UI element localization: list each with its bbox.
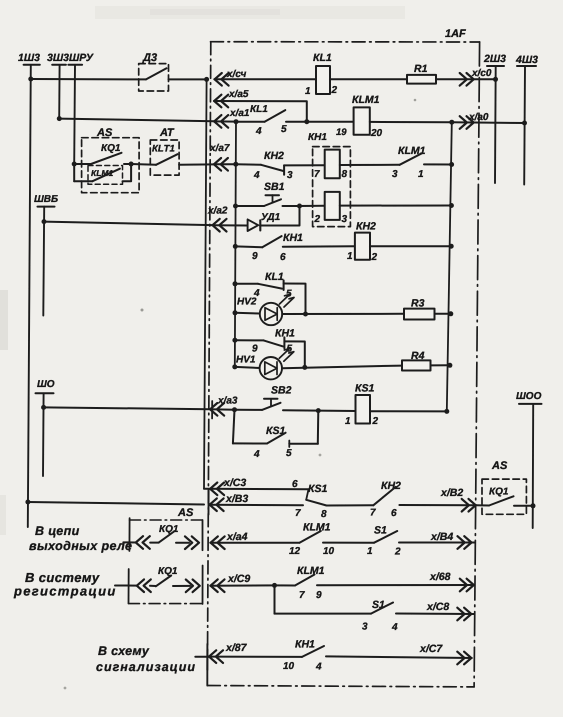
- wire inner supply rail: [235, 122, 236, 367]
- relay coil КН1 (upper): [325, 150, 340, 179]
- contact КLМ1 blade (7-9): [295, 575, 315, 586]
- svg-text:4: 4: [255, 126, 262, 137]
- svg-text:3: 3: [287, 170, 293, 181]
- wire right collector rail: [447, 122, 452, 411]
- svg-text:7: 7: [295, 508, 301, 519]
- wire rail to KL1 contact: [236, 121, 265, 123]
- svg-text:x/В3: x/В3: [225, 493, 248, 505]
- node junction row1 / 2Ш3: [493, 77, 498, 82]
- svg-text:КLМ1: КLМ1: [352, 94, 380, 106]
- wire row1 to KL1 coil: [214, 78, 316, 80]
- wire KQ1 to ШОО: [514, 505, 533, 507]
- wire x/а1 to rail: [214, 120, 236, 122]
- wire КН2 to x/В2: [399, 504, 476, 506]
- svg-text:7: 7: [370, 508, 376, 519]
- wire КLМ1 to right rail: [424, 163, 452, 165]
- wire KL1 to R1: [330, 78, 407, 80]
- svg-text:НV1: НV1: [236, 355, 256, 366]
- connector x/а3 arrow: [210, 403, 224, 416]
- wire branch drop: [274, 585, 276, 613]
- svg-text:2: 2: [314, 214, 321, 225]
- svg-text:1: 1: [367, 546, 373, 557]
- boundary 1AF bottom edge: [207, 686, 474, 687]
- contact KL1 blade: [265, 110, 286, 122]
- boundary 1AF right edge: [474, 42, 480, 687]
- bus ШРУ top tick: [68, 64, 82, 66]
- wire KQ1 to node: [124, 163, 131, 165]
- svg-text:4: 4: [253, 449, 260, 460]
- wire to x/а0 connector: [452, 121, 525, 124]
- wire ШВБ to boundary: [44, 222, 212, 226]
- wire x/87 left stub: [195, 656, 210, 658]
- svg-text:ШРУ: ШРУ: [69, 52, 94, 64]
- pushbutton SB2 actuator bar: [264, 398, 278, 400]
- wire node to КLМ1 contact: [275, 584, 296, 586]
- svg-text:АТ: АТ: [159, 127, 175, 139]
- pushbutton SB2 actuator stem: [270, 399, 272, 406]
- contact KLM1 (parallel) blade: [93, 169, 120, 182]
- svg-text:КQ1: КQ1: [158, 566, 178, 577]
- wire boundary to KQ1: [476, 504, 489, 506]
- wire КН1 coil to КLМ1 contact: [340, 164, 400, 166]
- wire SB1 to node: [283, 205, 300, 207]
- wire bypass drop (left): [233, 410, 235, 444]
- node junction SB1 / diode branch: [297, 204, 302, 209]
- wire rail to SB1: [236, 205, 265, 207]
- svg-text:6: 6: [292, 479, 298, 490]
- svg-text:7: 7: [299, 590, 305, 601]
- connector arrow (out of реле): [185, 536, 199, 549]
- node junction HV1 row / inner rail end: [232, 364, 237, 369]
- svg-text:1: 1: [305, 86, 311, 97]
- svg-text:x/С3: x/С3: [223, 477, 246, 489]
- svg-text:2: 2: [371, 252, 378, 263]
- svg-text:x/а3: x/а3: [217, 396, 238, 407]
- svg-text:x/С9: x/С9: [227, 573, 250, 585]
- wire x/а4 left stub: [123, 541, 136, 543]
- КН1 pin 5 tick: [283, 337, 285, 348]
- node junction pin5 / x/а5: [304, 119, 309, 124]
- svg-text:КLТ1: КLТ1: [152, 144, 175, 155]
- pushbutton SB1 blade: [264, 199, 281, 206]
- svg-text:КLМ1: КLМ1: [303, 522, 331, 534]
- node junction ШО / x/а3 row: [41, 405, 46, 410]
- node junction ШРУ / x/а7 row: [72, 162, 77, 167]
- contact S1 blade (3-4): [371, 603, 393, 614]
- wire x/В3 to KS1: [209, 504, 303, 507]
- wire node to KLT1: [131, 163, 156, 166]
- bus ШВБ (vertical wire): [42, 207, 45, 316]
- svg-text:3: 3: [392, 169, 398, 180]
- left terminal tick: [128, 518, 130, 551]
- КL1 pin 5 tick: [283, 280, 285, 290]
- bus 2Ш3 top tick: [487, 65, 504, 67]
- wire КLМ1 to S1: [323, 542, 374, 544]
- right terminal tick (регистрации): [202, 566, 204, 605]
- LED HV1 triangle: [265, 362, 277, 375]
- node junction KLM1 / right rail: [449, 120, 454, 125]
- svg-text:Д3: Д3: [142, 52, 157, 64]
- wire KLM1 parallel branch down: [73, 164, 75, 181]
- svg-text:6: 6: [280, 252, 286, 263]
- wire KS1 coil to right rail: [370, 410, 447, 412]
- connector x/В3 arrow: [210, 498, 224, 511]
- connector x/а0 arrow: [460, 116, 474, 129]
- wire bypass bottom right: [289, 443, 318, 445]
- contact КН1 blade (10-4): [302, 646, 324, 657]
- connector x/С9 arrow: [211, 579, 225, 592]
- svg-text:x/а7: x/а7: [209, 143, 230, 154]
- connector x/а7 arrow: [214, 158, 228, 171]
- bus 1Ш3 (vertical wire): [28, 65, 31, 527]
- node junction x/В2 / ШОО: [531, 503, 536, 508]
- LED HV1 circle: [260, 357, 282, 379]
- svg-text:SВ2: SВ2: [271, 385, 292, 397]
- accessory bracket (dash-dot, bottom): [129, 603, 203, 605]
- svg-text:9: 9: [252, 344, 258, 355]
- wire rail to КН1 contact: [235, 245, 262, 248]
- bus 4Ш3 (vertical wire): [523, 66, 526, 185]
- boundary 1AF top edge: [211, 41, 480, 43]
- wire branch to S1: [275, 613, 372, 615]
- node junction SB1 row / right rail: [449, 203, 454, 208]
- bus ШОО top tick: [519, 403, 542, 405]
- boundary tick at x/87: [206, 644, 208, 670]
- svg-text:x/87: x/87: [225, 642, 248, 654]
- svg-text:4: 4: [253, 170, 260, 181]
- wire row1 left segment: [31, 78, 146, 80]
- wire KLM1 branch to node: [123, 164, 132, 181]
- svg-text:АS: АS: [177, 507, 194, 519]
- accessory box AS (dashed): [82, 138, 140, 193]
- contact KLM1 (parallel) box: [88, 166, 123, 185]
- svg-text:регистрации: регистрации: [13, 584, 117, 599]
- svg-text:x/а4: x/а4: [226, 531, 248, 543]
- svg-text:20: 20: [370, 128, 383, 139]
- connector arrow (out of регистрации): [186, 580, 200, 593]
- svg-text:ШО: ШО: [37, 379, 55, 390]
- svg-text:8: 8: [342, 169, 348, 180]
- svg-text:АS: АS: [491, 460, 508, 472]
- relay coil KS1: [356, 395, 371, 424]
- wire x/а7 to rail: [214, 163, 236, 165]
- connector x/а5 arrow: [214, 95, 228, 108]
- wire x/С3 row: [204, 488, 309, 491]
- wire rail to КL1 contact: [235, 283, 258, 285]
- bus 1Ш3 top tick: [24, 64, 40, 66]
- connector x/с0 arrow: [460, 73, 474, 86]
- wire x/С9 to node: [210, 584, 274, 586]
- KS1 pin 5 tick: [288, 441, 290, 448]
- LED HV2 cathode bar: [276, 308, 278, 321]
- svg-text:УД1: УД1: [261, 212, 281, 223]
- node junction x/а3 / bypass branch: [232, 407, 237, 412]
- accessory box AS bracket (dash-dot): [130, 519, 203, 521]
- wire x/С9 left stub: [115, 585, 137, 587]
- contact KLT1 blade: [156, 154, 178, 165]
- wire KLT1 to boundary: [179, 163, 214, 165]
- bus 4Ш3 top tick: [517, 65, 536, 67]
- wire КLМ1 to x/68: [317, 584, 474, 586]
- svg-text:1: 1: [347, 251, 353, 262]
- svg-text:1: 1: [418, 169, 424, 180]
- wire node to КН1 lower coil: [300, 205, 325, 207]
- svg-text:ШВБ: ШВБ: [34, 194, 58, 205]
- svg-text:4: 4: [315, 662, 322, 673]
- contact KS1 blade to pin 8: [306, 500, 326, 506]
- svg-text:КQ1: КQ1: [489, 487, 509, 498]
- svg-text:3: 3: [362, 622, 368, 633]
- wire KS1 to КН2: [327, 504, 374, 506]
- svg-text:КS1: КS1: [355, 383, 374, 395]
- node junction row x/а7 / right rail: [449, 162, 454, 167]
- svg-text:x/В2: x/В2: [440, 487, 463, 499]
- node junction 1Ш3 / row1: [28, 77, 33, 82]
- node junction row1 / outer rail: [204, 77, 209, 82]
- left terminal tick (регистрации): [128, 569, 130, 603]
- boundary tick at x/В3: [208, 490, 210, 515]
- node junction КL1 bypass / HV2 row: [303, 312, 308, 317]
- contact Д3 box: [139, 64, 169, 91]
- node junction KS1 coil / right rail: [444, 409, 449, 414]
- wire ШРУ to KQ1: [74, 163, 91, 165]
- wire R4 to right rail: [431, 364, 450, 366]
- resistor R4: [402, 360, 431, 370]
- wire to KQ1 blade: [150, 542, 159, 544]
- svg-text:КL1: КL1: [250, 104, 268, 115]
- svg-text:7: 7: [314, 169, 320, 180]
- svg-text:КL1: КL1: [265, 271, 284, 283]
- wire rail to КН2 contact: [236, 163, 261, 166]
- svg-text:1Ш3: 1Ш3: [18, 52, 40, 64]
- wire KQ1 to arrow: [176, 542, 189, 544]
- svg-text:x/с0: x/с0: [471, 68, 492, 79]
- pushbutton SB1 actuator bar: [266, 194, 280, 196]
- svg-text:В схему: В схему: [98, 644, 150, 658]
- node junction x/а0 / 4Ш3: [522, 121, 527, 126]
- wire node to KLM1 coil: [307, 121, 354, 123]
- svg-text:x/С8: x/С8: [426, 601, 449, 613]
- node junction КН1 row / inner rail: [233, 244, 238, 249]
- connector x/В4 arrow: [458, 536, 472, 549]
- bus ШО (vertical wire): [42, 393, 45, 476]
- wire rail to КН1 contact: [235, 339, 264, 341]
- bus ШО top tick: [36, 392, 54, 394]
- svg-text:x/а1: x/а1: [229, 108, 250, 119]
- wire rail to HV2: [235, 312, 260, 315]
- contact KQ1 blade (регистрации): [156, 576, 171, 587]
- contact KQ1 blade: [489, 496, 514, 505]
- relay coil KL1: [316, 66, 330, 94]
- connector x/сч arrow: [215, 73, 229, 86]
- svg-text:1: 1: [345, 416, 351, 427]
- pushbutton SB1 actuator stem: [272, 195, 274, 202]
- wire КL1 to corner: [284, 284, 306, 315]
- wire HV1 to R4: [282, 366, 402, 369]
- connector x/68 arrow: [460, 579, 474, 592]
- svg-text:9: 9: [316, 590, 322, 601]
- wire КН2 to КН1 box: [284, 164, 325, 166]
- node junction SB2 / bypass return: [316, 408, 321, 413]
- accessory box AT (dashed): [150, 140, 179, 175]
- node junction R4 / right rail: [447, 363, 452, 368]
- connector x/В2 arrow: [462, 499, 476, 512]
- svg-text:КН1: КН1: [308, 132, 327, 143]
- pushbutton SB2 blade: [262, 403, 281, 410]
- wire КН1 lower coil to right rail: [340, 205, 452, 207]
- wire outer rail (1Ш3 row down to x/C3 row): [204, 79, 207, 488]
- svg-text:НV2: НV2: [237, 297, 257, 308]
- contact КН1 blade (to pin 5): [264, 340, 283, 346]
- wire x/а2 to diode: [212, 224, 247, 226]
- wire КН1 to corner: [284, 341, 304, 367]
- wire x/а4 to КLМ1: [210, 542, 299, 544]
- svg-text:x/В4: x/В4: [430, 531, 453, 543]
- relay coil KLM1: [354, 107, 370, 134]
- wire KLM1 branch lower: [74, 180, 92, 182]
- wire x/а3 to node: [210, 408, 235, 410]
- svg-text:3: 3: [342, 214, 348, 225]
- bus ШОО (vertical wire): [532, 404, 535, 528]
- contact КL1 blade (to pin 5): [258, 284, 282, 289]
- svg-text:9: 9: [252, 251, 258, 262]
- svg-text:КLМ1: КLМ1: [297, 565, 325, 577]
- LED HV2 circle: [260, 303, 282, 325]
- svg-text:сигнализации: сигнализации: [96, 660, 196, 674]
- svg-text:19: 19: [336, 127, 347, 138]
- svg-text:2Ш3: 2Ш3: [483, 53, 506, 65]
- svg-text:3Ш3: 3Ш3: [47, 52, 69, 64]
- wire rail to HV1: [235, 367, 260, 368]
- resistor R3: [404, 309, 435, 320]
- node junction HV2 row / inner rail: [233, 310, 238, 315]
- connector x/а2 arrow: [213, 219, 227, 232]
- bus 3Ш3 (vertical wire): [58, 65, 60, 119]
- svg-text:6: 6: [391, 508, 397, 519]
- node junction КН1 bypass / inner rail: [232, 338, 237, 343]
- node junction КL1 bypass / inner rail: [233, 281, 238, 286]
- boundary 1AF left-bottom corner: [206, 650, 208, 686]
- svg-text:ШОО: ШОО: [516, 391, 542, 402]
- boundary tick at x/а3: [211, 401, 213, 419]
- bus 3Ш3 top tick: [52, 64, 66, 66]
- wire to KQ1 blade: [150, 585, 156, 587]
- contact КН2 blade: [373, 487, 395, 505]
- node junction КН2 coil / right rail: [449, 244, 454, 249]
- contact S1 blade: [374, 531, 397, 543]
- wire bypass bottom left: [233, 442, 267, 444]
- node junction 3Ш3 / x/а1 row: [57, 116, 62, 121]
- wire node to SB2: [235, 409, 263, 411]
- wire R3 to right rail: [435, 313, 451, 315]
- svg-text:R1: R1: [414, 63, 428, 75]
- wire x/С3 drop to pivot: [306, 489, 308, 500]
- wire diode to SB1 node: [260, 206, 300, 226]
- wire HV2 to R3: [282, 313, 404, 315]
- svg-text:2: 2: [372, 416, 379, 427]
- svg-text:x/С7: x/С7: [419, 643, 443, 655]
- svg-text:x/а2: x/а2: [207, 206, 228, 217]
- svg-text:КLМ1: КLМ1: [398, 145, 426, 157]
- wire x/В3 from 1Ш3: [28, 502, 204, 505]
- LED HV2 emission arrows: [280, 295, 295, 308]
- wire КН2 coil to right rail: [370, 245, 451, 247]
- wire bypass rise (right): [317, 411, 320, 444]
- contact Д3 blade: [146, 68, 167, 79]
- relay coil КН2: [355, 233, 370, 260]
- wire S1 to x/С8: [396, 613, 474, 616]
- diode УД1: [248, 219, 259, 231]
- node junction ШВБ / x/а2 row: [42, 219, 47, 224]
- svg-text:10: 10: [283, 661, 295, 672]
- connector x/С3 arrow: [210, 483, 224, 496]
- svg-text:КН1: КН1: [283, 232, 303, 244]
- connector arrow (into регистрации): [137, 579, 151, 592]
- svg-text:8: 8: [321, 509, 327, 520]
- node junction R3 / right rail: [448, 311, 453, 316]
- КН2 pin 3 tick: [283, 165, 285, 174]
- svg-text:10: 10: [323, 546, 335, 557]
- contact КН1 blade: [262, 236, 281, 247]
- contact KQ1 blade: [159, 531, 175, 543]
- wire node to KS1 coil: [318, 410, 355, 412]
- svg-text:КН1: КН1: [295, 639, 315, 651]
- accessory box AS (right, dashed): [482, 479, 526, 514]
- relay coil КН1 (lower): [325, 192, 340, 220]
- contact КLМ1 blade: [400, 153, 422, 165]
- svg-text:1АF: 1АF: [445, 28, 466, 40]
- svg-text:КS1: КS1: [308, 483, 327, 495]
- wire ШО to boundary: [44, 407, 210, 409]
- svg-text:КL1: КL1: [313, 52, 332, 64]
- bus 2Ш3 (vertical wire): [494, 66, 497, 183]
- wire KQ1 to arrow: [173, 585, 190, 587]
- contact КLМ1 blade: [300, 531, 321, 543]
- connector x/а4 arrow: [211, 536, 225, 549]
- svg-text:5: 5: [281, 124, 287, 135]
- resistor R1: [407, 75, 436, 84]
- bus ШРУ (vertical wire): [73, 65, 76, 164]
- svg-text:КQ1: КQ1: [101, 143, 121, 154]
- wire x/а5 row: [214, 101, 307, 122]
- connector x/87 arrow: [209, 650, 223, 663]
- node junction KQ1 / KLM1 branch: [129, 162, 134, 167]
- svg-text:x/68: x/68: [429, 571, 451, 583]
- wire x/87 to КН1: [209, 656, 302, 658]
- svg-text:4: 4: [391, 622, 398, 633]
- relay КН1 box (dashed): [313, 147, 351, 227]
- contact КН2 blade (closing to pin 3): [261, 165, 283, 171]
- contact KS1 blade: [267, 433, 286, 444]
- svg-text:S1: S1: [374, 525, 387, 537]
- connector arrow (into реле): [136, 536, 150, 549]
- svg-text:выходных реле: выходных реле: [29, 539, 132, 553]
- svg-text:КН2: КН2: [356, 221, 376, 233]
- svg-text:5: 5: [286, 448, 292, 459]
- wire SB2 to node: [283, 409, 318, 411]
- svg-text:4Ш3: 4Ш3: [515, 54, 538, 66]
- svg-text:В цепи: В цепи: [35, 524, 80, 538]
- wire R1 to connector: [436, 78, 496, 80]
- node junction 1Ш3 / x/В3 row: [25, 500, 30, 505]
- node junction SB1 row / inner rail: [233, 204, 238, 209]
- connector x/С7 arrow: [457, 652, 471, 665]
- wire S1 to x/В4: [399, 542, 475, 544]
- svg-text:12: 12: [289, 546, 301, 557]
- accessory box AS bracket right edge: [202, 520, 204, 550]
- connector x/а1 arrow: [214, 115, 228, 128]
- boundary 1AF left edge: [208, 42, 211, 656]
